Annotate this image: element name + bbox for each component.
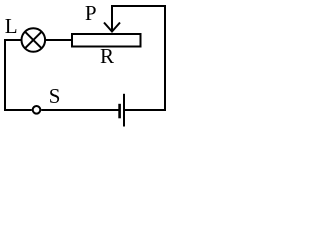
svg-text:L: L <box>5 14 18 38</box>
svg-text:P: P <box>85 1 97 25</box>
svg-text:R: R <box>100 44 114 68</box>
svg-text:S: S <box>49 84 61 108</box>
